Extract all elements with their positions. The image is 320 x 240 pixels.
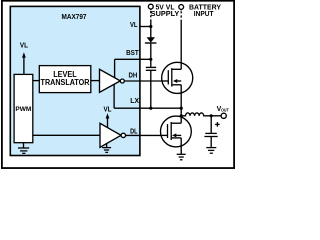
svg-text:VL: VL (20, 43, 29, 50)
svg-text:PWM: PWM (15, 106, 31, 113)
svg-text:VL: VL (130, 20, 138, 29)
svg-text:OUT: OUT (221, 107, 229, 112)
svg-text:BST: BST (126, 48, 139, 57)
svg-text:VL: VL (104, 106, 113, 113)
svg-text:INPUT: INPUT (194, 9, 214, 18)
svg-text:MAX797: MAX797 (62, 12, 87, 21)
svg-text:TRANSLATOR: TRANSLATOR (41, 78, 90, 87)
svg-text:DL: DL (130, 126, 138, 135)
svg-text:LX: LX (130, 96, 139, 105)
svg-text:DH: DH (129, 71, 138, 80)
svg-text:SUPPLY: SUPPLY (151, 9, 180, 18)
